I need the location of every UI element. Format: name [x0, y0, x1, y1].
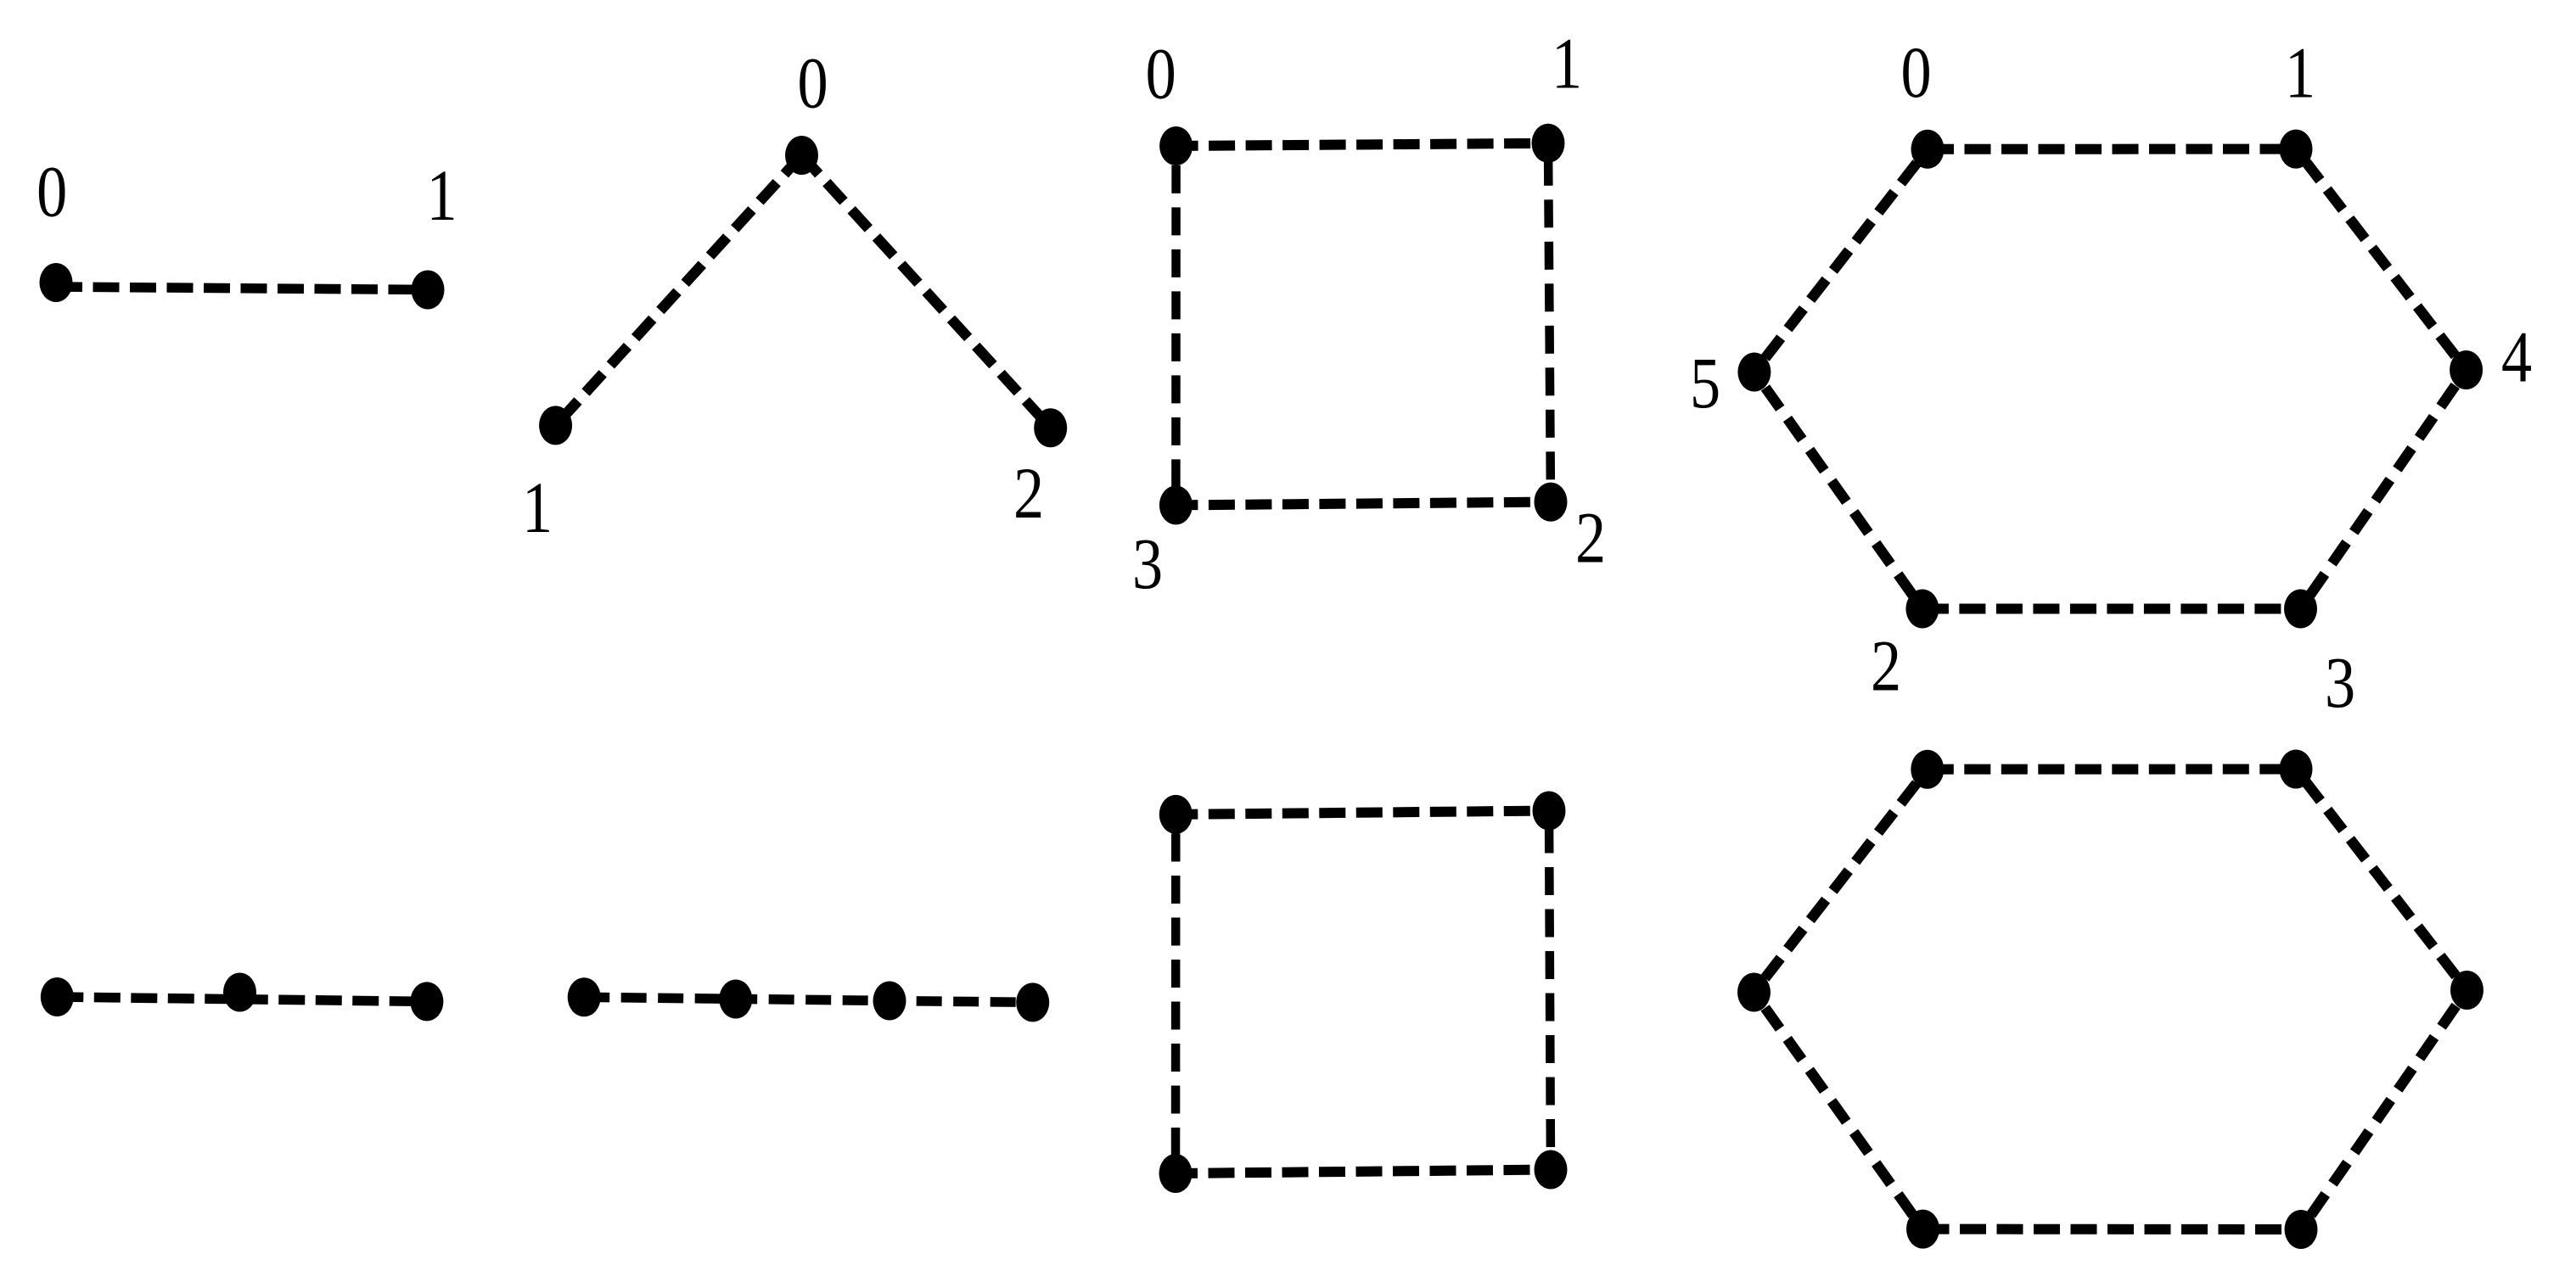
- svg-text:0: 0: [36, 152, 67, 232]
- svg-text:0: 0: [1146, 34, 1176, 115]
- svg-text:5: 5: [1690, 343, 1720, 423]
- svg-text:2: 2: [1575, 497, 1606, 578]
- svg-text:0: 0: [798, 42, 828, 123]
- svg-text:0: 0: [1901, 32, 1932, 113]
- svg-text:2: 2: [1871, 626, 1901, 707]
- svg-text:3: 3: [1132, 523, 1163, 604]
- svg-text:2: 2: [1013, 453, 1044, 534]
- svg-text:1: 1: [1552, 24, 1582, 104]
- svg-text:1: 1: [2285, 33, 2315, 114]
- svg-text:4: 4: [2501, 317, 2532, 398]
- svg-text:1: 1: [427, 155, 457, 236]
- svg-text:3: 3: [2325, 642, 2355, 723]
- svg-text:1: 1: [522, 467, 553, 548]
